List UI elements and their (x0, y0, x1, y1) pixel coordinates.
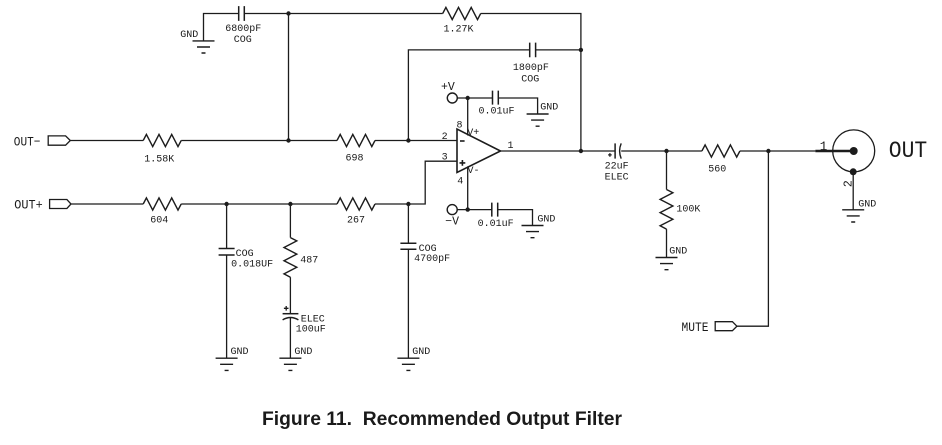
svg-text:8: 8 (457, 121, 463, 132)
ground GND 4700pF (397, 347, 430, 370)
svg-text:Figure 11. Recommended Output: Figure 11. Recommended Output Filter (262, 409, 622, 430)
node feedback to output rail (579, 149, 583, 153)
capacitor C 1800pF COG (513, 43, 549, 86)
wire 1.27K to feedback corner down to output rail (481, 14, 581, 152)
wire MUTE to output rail (737, 151, 769, 326)
svg-text:V+: V+ (467, 128, 479, 139)
resistor 487 (284, 238, 318, 278)
wire 698 to op-amp pin 2 (375, 140, 457, 142)
capacitor C 22uF ELEC polarized (605, 143, 629, 183)
wire +V cap to ground (498, 98, 537, 114)
svg-text:GND: GND (412, 347, 430, 358)
svg-text:0.01uF: 0.01uF (479, 107, 515, 118)
supply -V (445, 205, 459, 229)
svg-text:0.01uF: 0.01uF (478, 219, 514, 230)
resistor 267 (337, 198, 375, 227)
capacitor C 0.018UF COG (219, 249, 274, 271)
node 4700pF branch (406, 202, 410, 206)
svg-text:OUT: OUT (889, 138, 927, 164)
wire -V to pin 4 and bypass cap (457, 166, 492, 209)
svg-text:+V: +V (441, 81, 455, 94)
wire 4700pF branch (407, 204, 409, 243)
wire 0.018UF branch (226, 204, 228, 249)
svg-text:GND: GND (231, 347, 249, 358)
port OUT- (14, 134, 71, 149)
svg-text:COG: COG (236, 249, 254, 260)
svg-text:1.58K: 1.58K (144, 154, 174, 165)
wire 1800pF to feedback node (536, 49, 581, 51)
node 487 branch (288, 202, 292, 206)
resistor 100K (660, 190, 700, 230)
wire GND stub to 6800pF (204, 14, 239, 41)
ground GND 0.018UF (216, 347, 249, 370)
svg-text:3: 3 (442, 153, 448, 164)
resistor 604 (143, 198, 181, 227)
svg-text:MUTE: MUTE (682, 320, 709, 335)
wire 100K branch (666, 151, 668, 190)
node +V junction (466, 96, 470, 100)
svg-text:487: 487 (300, 255, 318, 266)
capacitor C 0.01uF (+V bypass) (479, 91, 515, 118)
svg-text:GND: GND (858, 200, 876, 211)
wire 100K to ground (666, 229, 668, 257)
ground GND -V (522, 215, 556, 238)
wire OUT+ to 604 (71, 203, 143, 205)
svg-text:COG: COG (234, 35, 252, 46)
op-amp U1 (457, 129, 501, 173)
svg-text:GND: GND (537, 215, 555, 226)
ground GND top-left (180, 30, 214, 53)
svg-text:OUT+: OUT+ (14, 198, 43, 213)
svg-text:COG: COG (521, 75, 539, 86)
wire top node down to OUT- rail (288, 14, 290, 141)
svg-text:1: 1 (508, 141, 514, 152)
node on OUT- rail (286, 138, 290, 142)
svg-text:OUT−: OUT− (14, 134, 41, 149)
capacitor C 0.01uF (-V bypass) (478, 203, 514, 230)
wire 1.58K to 698 (181, 140, 337, 142)
wire -V cap to ground (498, 210, 533, 226)
wire 487 branch (289, 204, 291, 238)
supply +V (441, 81, 457, 103)
capacitor ELEC 100uF polarized (283, 306, 326, 335)
svg-text:V-: V- (468, 166, 480, 177)
svg-text:604: 604 (150, 216, 168, 227)
wire 560 to jack (740, 150, 816, 152)
svg-text:4: 4 (457, 176, 463, 187)
svg-text:−V: −V (445, 216, 459, 229)
wire jack pin2 to ground (852, 172, 854, 210)
wire 100uF to ground (289, 318, 291, 359)
wire 22uF to 560 (621, 150, 702, 152)
wire 4700pF to ground (407, 249, 409, 358)
svg-text:1.27K: 1.27K (443, 24, 473, 35)
node top junction (286, 11, 290, 15)
resistor 1.58K (143, 134, 181, 165)
svg-text:GND: GND (540, 103, 558, 114)
svg-text:1800pF: 1800pF (513, 63, 549, 74)
svg-text:22uF: 22uF (605, 162, 629, 173)
node 100K branch (664, 149, 668, 153)
node 1800pF riser on OUT- rail (406, 138, 410, 142)
svg-text:2: 2 (442, 132, 448, 143)
svg-text:6800pF: 6800pF (225, 24, 261, 35)
wire 1800pF branch left riser to OUT- rail (408, 50, 529, 141)
wire +V to pin 8 and bypass cap (457, 98, 492, 136)
svg-text:0.018UF: 0.018UF (231, 260, 273, 271)
connector OUT jack (815, 130, 874, 175)
svg-text:560: 560 (708, 165, 726, 176)
svg-text:GND: GND (180, 30, 198, 41)
resistor 560 (702, 145, 740, 176)
wire 604 to 267 (181, 203, 337, 205)
svg-text:698: 698 (345, 153, 363, 164)
port OUT+ (14, 198, 71, 213)
svg-text:100K: 100K (676, 205, 700, 216)
resistor 698 (337, 134, 375, 164)
svg-text:4700pF: 4700pF (414, 254, 450, 265)
wire 0.018UF to ground (226, 255, 228, 358)
capacitor C 6800pF COG (225, 6, 261, 46)
node feedback 1800pF tee (579, 48, 583, 52)
node MUTE branch (766, 149, 770, 153)
capacitor C 4700pF COG (400, 243, 450, 265)
ground GND +V (527, 103, 559, 127)
port MUTE (682, 320, 737, 335)
svg-text:1: 1 (820, 140, 828, 154)
svg-text:ELEC: ELEC (605, 172, 629, 183)
wire 267 to pin3 riser (375, 161, 457, 204)
wire 6800pF to 1.27K (244, 13, 442, 15)
svg-text:GND: GND (294, 347, 312, 358)
wire 487 to 100uF (289, 277, 291, 314)
wire OUT- to 1.58K (70, 140, 143, 142)
svg-text:100uF: 100uF (296, 324, 326, 335)
wire output rail op-amp to 22uF (501, 150, 616, 152)
svg-text:267: 267 (347, 216, 365, 227)
node -V junction (466, 207, 470, 211)
ground GND jack (842, 200, 876, 222)
ground GND 100K (656, 247, 688, 270)
svg-text:GND: GND (669, 247, 687, 258)
resistor 1.27K (443, 7, 481, 35)
node 0.018UF branch (224, 202, 228, 206)
ground GND 100uF (279, 347, 312, 370)
